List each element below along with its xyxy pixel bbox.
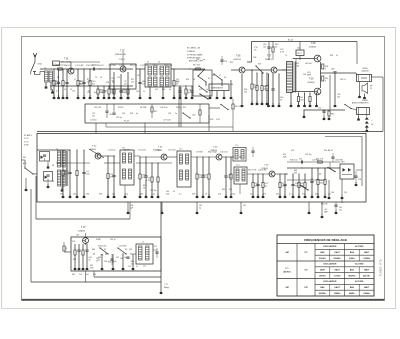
svg-text:PO: PO (305, 252, 308, 254)
svg-text:C40 10n: C40 10n (160, 107, 168, 109)
svg-text:5p: 5p (136, 113, 138, 115)
svg-text:C57: C57 (310, 179, 313, 181)
svg-text:510 KHz: 510 KHz (319, 258, 326, 260)
svg-text:C11: C11 (87, 92, 90, 94)
svg-text:OSCILLATEUR: OSCILLATEUR (323, 245, 337, 248)
svg-text:R63 15K: R63 15K (108, 262, 115, 264)
svg-text:CASQUE: CASQUE (361, 70, 369, 73)
svg-text:C74 2,2K: C74 2,2K (140, 65, 149, 67)
svg-text:T 02: T 02 (120, 51, 125, 53)
svg-text:R21: R21 (230, 62, 233, 64)
svg-text:T 01: T 01 (64, 59, 69, 61)
svg-text:1,71KHz: 1,71KHz (334, 275, 341, 277)
svg-text:R77 560: R77 560 (153, 150, 161, 152)
svg-text:L4: L4 (158, 62, 160, 64)
svg-text:(2SB56): (2SB56) (308, 82, 315, 84)
svg-text:ACCORD: ACCORD (355, 245, 364, 248)
svg-text:C23: C23 (122, 113, 125, 115)
svg-text:C14 10n: C14 10n (108, 150, 116, 152)
svg-text:C51 100: C51 100 (138, 150, 146, 152)
svg-text:LT 3: LT 3 (235, 145, 238, 147)
svg-text:220: 220 (302, 194, 305, 196)
svg-text:C70: C70 (128, 266, 131, 268)
svg-text:C14: C14 (109, 114, 112, 116)
svg-text:C52: C52 (318, 108, 321, 110)
svg-text:C38: C38 (253, 57, 256, 59)
svg-text:PRISE: PRISE (362, 68, 368, 70)
svg-text:3 FM: 3 FM (24, 145, 29, 147)
svg-text:R51 0,1: R51 0,1 (130, 65, 138, 67)
svg-text:1,60MHz: 1,60MHz (363, 258, 370, 260)
svg-text:40: 40 (115, 261, 117, 263)
svg-text:LT 2: LT 2 (179, 149, 182, 151)
svg-text:C40: C40 (166, 191, 169, 193)
svg-text:C25: C25 (199, 89, 202, 91)
svg-text:S.MW: S.MW (96, 239, 101, 241)
svg-text:C19 1K: C19 1K (152, 65, 159, 67)
svg-text:P8: P8 (52, 181, 54, 183)
svg-text:100: 100 (337, 96, 340, 98)
svg-text:470: 470 (263, 194, 266, 196)
svg-text:4n7: 4n7 (94, 92, 97, 94)
svg-text:C48: C48 (331, 69, 334, 71)
svg-text:HAUT: HAUT (364, 269, 370, 272)
svg-text:5: 5 (310, 74, 311, 76)
svg-text:470: 470 (112, 194, 115, 196)
svg-text:HAUT: HAUT (364, 286, 370, 289)
svg-text:220: 220 (79, 274, 82, 276)
svg-text:C13: C13 (117, 77, 120, 79)
svg-text:T 07: T 07 (81, 227, 86, 229)
svg-text:C71: C71 (154, 246, 157, 248)
svg-text:C10 100: C10 100 (220, 152, 228, 154)
svg-text:C77 220: C77 220 (163, 120, 171, 122)
svg-text:C50 2,2K: C50 2,2K (86, 65, 95, 67)
svg-text:2 GO: 2 GO (24, 141, 29, 143)
svg-text:PILOT: PILOT (297, 53, 302, 55)
svg-text:FM: FM (305, 287, 308, 289)
svg-text:ST ANTV: ST ANTV (24, 134, 33, 137)
svg-text:+ 1 SV: + 1 SV (66, 246, 68, 252)
svg-text:C46: C46 (303, 74, 306, 76)
svg-text:C3 1K: C3 1K (119, 65, 125, 67)
svg-text:ACCORD: ACCORD (355, 263, 364, 266)
svg-text:108MHz: 108MHz (334, 293, 341, 295)
svg-text:R40: R40 (331, 114, 334, 116)
svg-text:PRISE: PRISE (362, 100, 368, 102)
svg-text:40: 40 (98, 259, 100, 261)
svg-text:C64: C64 (100, 255, 103, 257)
svg-text:R33: R33 (330, 55, 333, 57)
svg-text:0,1: 0,1 (289, 194, 292, 196)
svg-text:C3 560: C3 560 (90, 120, 97, 122)
svg-text:(2SB56): (2SB56) (309, 47, 316, 49)
svg-text:6,0KHz: 6,0KHz (349, 258, 355, 260)
svg-text:50u: 50u (339, 209, 342, 211)
svg-text:1 PO: 1 PO (24, 138, 29, 140)
svg-text:560: 560 (276, 194, 279, 196)
svg-text:560: 560 (73, 194, 76, 196)
svg-text:4n7: 4n7 (86, 274, 89, 276)
svg-text:C28: C28 (196, 59, 199, 61)
svg-text:50: 50 (100, 77, 102, 79)
svg-text:T.08: T.08 (311, 43, 316, 45)
svg-text:C26: C26 (168, 113, 171, 115)
svg-text:C19: C19 (155, 89, 158, 91)
svg-text:R3: R3 (57, 77, 59, 79)
svg-text:C63: C63 (76, 235, 79, 237)
svg-text:C68 39K: C68 39K (335, 160, 343, 162)
svg-text:5p: 5p (169, 89, 171, 91)
svg-text:10p: 10p (124, 257, 127, 259)
svg-text:(2SB 14): (2SB 14) (234, 59, 242, 61)
svg-text:470: 470 (131, 81, 134, 83)
svg-text:C66: C66 (104, 261, 107, 263)
svg-text:L18 39K: L18 39K (119, 246, 127, 248)
svg-text:R27 4,7K: R27 4,7K (248, 170, 257, 172)
svg-text:220: 220 (120, 91, 123, 93)
svg-text:1n: 1n (136, 266, 138, 268)
svg-text:25: 25 (370, 88, 372, 90)
svg-text:R16: R16 (186, 79, 189, 81)
svg-text:C9 68K: C9 68K (196, 152, 203, 154)
svg-text:S2: S2 (224, 77, 226, 79)
svg-text:104MHz: 104MHz (363, 292, 370, 295)
svg-text:86MHz: 86MHz (349, 293, 355, 295)
svg-text:R18: R18 (210, 119, 213, 121)
svg-text:(2N 140/7M): (2N 140/7M) (61, 61, 71, 63)
svg-text:C35 39K: C35 39K (108, 65, 116, 67)
svg-text:C27: C27 (212, 75, 215, 77)
svg-text:C16: C16 (137, 75, 140, 77)
svg-text:0,1: 0,1 (56, 91, 59, 93)
svg-text:R60: R60 (92, 249, 95, 251)
svg-text:47p: 47p (218, 194, 221, 196)
svg-text:LT 5: LT 5 (143, 266, 146, 268)
svg-text:S4: S4 (104, 249, 106, 251)
svg-text:ACCORD: ACCORD (355, 280, 364, 283)
svg-text:FILTRE: FILTRE (140, 107, 147, 109)
svg-text:(2SA12): (2SA12) (90, 148, 97, 151)
svg-text:C67 47p: C67 47p (168, 150, 176, 152)
svg-text:LT 4: LT 4 (236, 165, 239, 167)
svg-text:CENT: CENT (320, 270, 326, 272)
svg-text:(2SB17): (2SB17) (265, 59, 272, 61)
svg-text:1400KHz: 1400KHz (333, 257, 341, 260)
svg-text:R27: R27 (258, 64, 261, 66)
svg-text:5: 5 (325, 80, 326, 82)
svg-text:T.07: T.07 (267, 56, 272, 58)
svg-text:(2SA49): (2SA49) (78, 229, 85, 232)
svg-text:C18: C18 (136, 91, 139, 93)
svg-text:COMMUTATION: COMMUTATION (211, 87, 224, 90)
svg-text:25: 25 (70, 89, 72, 91)
svg-text:10n: 10n (92, 83, 95, 85)
svg-text:P8: P8 (52, 165, 54, 167)
svg-text:5p: 5p (153, 194, 155, 196)
svg-text:R51 AS.14: R51 AS.14 (324, 149, 333, 152)
svg-text:(2SB140 T-B): (2SB140 T-B) (115, 54, 126, 56)
svg-text:R62 150p: R62 150p (208, 152, 218, 154)
svg-text:ST- MW4 - 4S: ST- MW4 - 4S (187, 48, 201, 50)
svg-text:C45: C45 (297, 48, 300, 50)
svg-text:C47: C47 (243, 205, 246, 207)
svg-text:C68: C68 (120, 258, 123, 260)
svg-text:C56 25p: C56 25p (305, 154, 311, 156)
svg-text:10n: 10n (263, 46, 266, 48)
svg-text:R49: R49 (222, 189, 225, 191)
svg-text:R50 4,7K: R50 4,7K (316, 159, 324, 161)
svg-text:C39 10n: C39 10n (150, 190, 156, 192)
svg-text:L33 33K: L33 33K (123, 150, 131, 152)
svg-text:455 KHz: 455 KHz (283, 270, 290, 273)
svg-text:R32 10n: R32 10n (290, 160, 298, 162)
svg-text:50: 50 (280, 99, 282, 101)
svg-text:C29: C29 (224, 61, 227, 63)
svg-text:470: 470 (104, 91, 107, 93)
svg-text:4,7K: 4,7K (146, 180, 151, 182)
svg-text:4n7: 4n7 (124, 83, 127, 85)
svg-text:10n: 10n (176, 81, 179, 83)
svg-text:C67: C67 (116, 257, 119, 259)
svg-text:2p: 2p (199, 207, 201, 209)
svg-text:R13: R13 (162, 89, 165, 91)
svg-text:P.L.M: P.L.M (124, 121, 129, 123)
svg-text:OM: OM (285, 287, 289, 289)
svg-text:R54 1K: R54 1K (97, 65, 104, 67)
svg-text:C 72: C 72 (164, 284, 168, 286)
svg-text:R66 1K: R66 1K (64, 65, 71, 67)
svg-text:C.W L2: C.W L2 (119, 59, 125, 61)
svg-text:160 KHz: 160 KHz (319, 275, 326, 277)
svg-text:2p: 2p (175, 113, 177, 115)
svg-text:47: 47 (336, 55, 338, 57)
svg-text:R72 1K: R72 1K (53, 65, 60, 67)
svg-text:1800KHz: 1800KHz (348, 275, 356, 277)
svg-text:R15: R15 (183, 107, 186, 109)
svg-text:HAUT: HAUT (335, 286, 341, 289)
svg-text:T.09: T.09 (309, 79, 314, 81)
svg-text:10n: 10n (92, 115, 95, 117)
svg-text:R20: R20 (230, 84, 233, 86)
svg-text:C9: C9 (95, 77, 97, 79)
svg-text:R34 4,7K: R34 4,7K (164, 65, 173, 67)
svg-text:T01 LX3: T01 LX3 (94, 107, 101, 109)
svg-text:T.06: T.06 (236, 56, 241, 58)
svg-text:C49 0,1: C49 0,1 (340, 79, 346, 81)
svg-text:150p: 150p (231, 194, 235, 196)
svg-text:S5: S5 (125, 249, 127, 251)
svg-text:C35 6,8K: C35 6,8K (258, 170, 267, 172)
svg-text:R17 220: R17 220 (193, 65, 200, 67)
svg-text:FRÉQUENCES DE RÉGLAGE: FRÉQUENCES DE RÉGLAGE (304, 237, 347, 242)
svg-text:565 KHz: 565 KHz (363, 275, 370, 277)
svg-text:FI 455: FI 455 (118, 107, 123, 109)
svg-text:C58: C58 (358, 179, 361, 181)
svg-text:2 PHONO GAMS: 2 PHONO GAMS (187, 53, 203, 56)
svg-text:0,1: 0,1 (179, 194, 182, 196)
svg-text:R61: R61 (73, 259, 76, 261)
svg-text:C7: C7 (74, 79, 76, 81)
svg-text:S1: S1 (208, 78, 210, 80)
svg-text:C30: C30 (192, 115, 195, 117)
svg-text:R12: R12 (154, 111, 157, 113)
svg-text:OSCILLATEUR: OSCILLATEUR (323, 280, 337, 283)
svg-text:C69: C69 (129, 249, 132, 251)
svg-text:ALIM EXTERIEUR 9V: ALIM EXTERIEUR 9V (352, 102, 369, 105)
svg-text:2p: 2p (206, 89, 208, 91)
svg-text:C55: C55 (291, 150, 294, 152)
svg-text:1n: 1n (317, 179, 319, 181)
svg-text:10n: 10n (328, 194, 331, 196)
svg-text:GM: GM (285, 252, 289, 254)
svg-text:C53: C53 (299, 159, 302, 161)
svg-text:50: 50 (173, 191, 175, 193)
svg-text:1n: 1n (143, 91, 145, 93)
svg-text:30: 30 (89, 259, 91, 261)
svg-text:4,7K: 4,7K (280, 51, 285, 53)
svg-text:680py: 680py (164, 287, 169, 289)
svg-text:C15 5p: C15 5p (116, 117, 122, 119)
svg-text:R43 8,2K: R43 8,2K (98, 246, 107, 248)
svg-text:47: 47 (219, 75, 221, 77)
svg-text:L48 4n7: L48 4n7 (305, 63, 313, 65)
svg-text:HAUT: HAUT (335, 269, 341, 272)
svg-text:C6: C6 (64, 89, 66, 91)
svg-text:L3: L3 (147, 62, 149, 64)
svg-text:5p: 5p (203, 59, 205, 61)
svg-text:R10: R10 (106, 82, 109, 84)
svg-text:HAUT: HAUT (335, 251, 341, 254)
svg-text:C62 5p: C62 5p (110, 239, 116, 241)
svg-text:OSCILLATEUR: OSCILLATEUR (323, 263, 337, 266)
svg-text:1 RADIO: 1 RADIO (187, 50, 195, 53)
svg-text:5: 5 (325, 68, 326, 70)
svg-text:R9 5p: R9 5p (176, 107, 182, 109)
svg-text:88,5MHz: 88,5MHz (319, 293, 326, 295)
svg-text:100: 100 (244, 91, 247, 93)
svg-text:R19 470: R19 470 (235, 106, 242, 108)
svg-text:GO: GO (304, 270, 308, 272)
svg-text:C61: C61 (344, 192, 347, 194)
svg-text:TL 6021 - A 73: TL 6021 - A 73 (379, 259, 383, 276)
svg-text:R14: R14 (130, 113, 133, 115)
svg-text:C17 6,8K: C17 6,8K (75, 65, 84, 67)
svg-text:HAUT: HAUT (364, 251, 370, 254)
svg-text:BL.04: BL.04 (288, 40, 293, 42)
svg-text:8,2K: 8,2K (52, 83, 57, 85)
svg-text:47p: 47p (125, 194, 128, 196)
svg-text:470: 470 (229, 189, 232, 191)
svg-text:C60: C60 (331, 192, 334, 194)
